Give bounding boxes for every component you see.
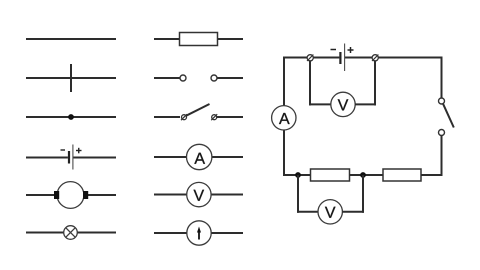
wire: ammeter row right lead [212, 156, 243, 158]
battery cell: short negative plate [68, 151, 70, 164]
lamp circle [64, 226, 78, 240]
circuit voltmeter V1 circle [331, 92, 355, 116]
circuit junction dot right [360, 172, 366, 178]
circuit: left vertical wire lower segment [283, 130, 285, 176]
switch lever [186, 104, 209, 116]
wire: resistor row right lead [218, 38, 244, 40]
circuit ammeter letter A [279, 113, 290, 124]
wire: open terminals row right lead [217, 77, 243, 79]
battery cell: long positive plate [72, 145, 74, 170]
wire: horizontal of connected wires row 3 [26, 116, 116, 118]
wire: galvanometer row right lead [212, 232, 244, 234]
wire: voltmeter row right lead [212, 194, 244, 196]
circuit switch top terminal [439, 98, 445, 104]
lamp cross [66, 228, 76, 238]
circuit battery plus label [348, 47, 354, 53]
circuit: right vertical wire upper segment [441, 57, 443, 99]
battery minus label [61, 149, 66, 151]
resistor box [180, 33, 218, 46]
circuit junction dot left [295, 172, 301, 178]
circuit voltmeter V2 branch right horizontal [342, 211, 364, 213]
circuit: right vertical wire lower segment [441, 136, 443, 177]
wire: ammeter row left lead [154, 156, 187, 158]
voltmeter circle [187, 182, 211, 206]
ammeter circle [187, 144, 212, 169]
wire: horizontal of crossing wires row 2 [26, 77, 116, 79]
circuit: top wire right of battery [345, 57, 442, 59]
circuit voltmeter V2 circle [318, 200, 342, 224]
motor left brush terminal [54, 191, 59, 199]
circuit: top wire [284, 57, 339, 59]
circuit battery short negative plate [339, 52, 341, 64]
circuit: bottom wire middle segment [350, 174, 384, 176]
galvanometer arrow shaft [198, 231, 200, 240]
wire: galvanometer row left lead [154, 232, 187, 234]
open terminal left circle [180, 75, 186, 81]
wire: open terminals row left lead [154, 77, 180, 79]
circuit battery right binding post [372, 55, 378, 61]
wire: lamp row right lead [77, 232, 116, 234]
circuit battery left binding post [307, 55, 313, 61]
wire: plain conductor row 1 [26, 38, 116, 40]
open terminal right circle [211, 75, 217, 81]
galvanometer arrow head [197, 227, 201, 233]
wire: battery row right lead [73, 157, 116, 159]
switch right binding post [211, 114, 217, 120]
wire: battery row left lead [26, 157, 68, 159]
circuit: bottom wire left segment [283, 174, 311, 176]
ammeter letter A [194, 153, 205, 164]
circuit voltmeter branch right horizontal [355, 103, 376, 105]
motor body circle [57, 182, 84, 209]
wire: voltmeter row left lead [154, 194, 187, 196]
circuit switch lever [443, 104, 454, 128]
wire: switch row left lead [154, 116, 180, 118]
galvanometer circle [187, 221, 211, 245]
circuit voltmeter V2 branch left horizontal [297, 211, 318, 213]
motor right brush terminal [83, 191, 88, 199]
wire: switch row right lead [217, 116, 243, 118]
circuit voltmeter V2 letter [325, 207, 336, 218]
battery plus label [76, 148, 82, 154]
circuit voltmeter V2 branch right vertical [362, 175, 364, 213]
wire: motor row right lead [88, 194, 117, 196]
circuit: left vertical wire upper segment [283, 57, 285, 107]
circuit battery minus label [331, 49, 337, 51]
wire: lamp row left lead [26, 232, 64, 234]
circuit resistor R1 box [311, 169, 350, 181]
wire: vertical of crossing wires row 2 [70, 64, 72, 92]
voltmeter letter V [194, 190, 205, 201]
wire: resistor row left lead [154, 38, 180, 40]
circuit voltmeter branch left vertical [309, 61, 311, 106]
switch left binding post [181, 114, 187, 120]
circuit: bottom wire right segment [421, 174, 443, 176]
circuit switch bottom terminal [439, 130, 445, 136]
circuit resistor R2 box [383, 169, 421, 181]
circuit voltmeter V1 letter [338, 99, 349, 110]
circuit voltmeter branch right vertical [374, 61, 376, 106]
wire: motor row left lead [26, 194, 55, 196]
circuit voltmeter branch left horizontal [309, 103, 331, 105]
circuit ammeter A circle [272, 106, 296, 130]
junction dot row 3 [68, 114, 74, 120]
circuit voltmeter V2 branch left vertical [297, 175, 299, 213]
circuit battery long positive plate [344, 44, 346, 72]
